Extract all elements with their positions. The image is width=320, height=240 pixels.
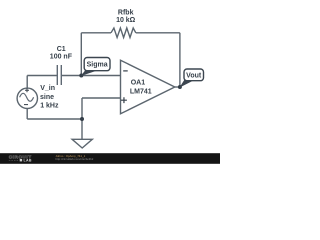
wire feedback riser right: [179, 33, 181, 87]
junction dot at output node: [178, 85, 182, 89]
svg-text:1 kHz: 1 kHz: [40, 103, 59, 110]
plus mark in source: [25, 88, 29, 92]
watermark bar: [0, 153, 220, 164]
minus mark in source: [24, 104, 28, 106]
junction dot at ground node: [80, 117, 84, 121]
wire source bottom column: [26, 108, 28, 119]
op-amp plus symbol: [121, 97, 127, 103]
svg-text:10 kΩ: 10 kΩ: [116, 17, 136, 24]
voltage source V_in circle: [17, 88, 37, 108]
wire source top column: [26, 76, 28, 89]
watermark logo square: [20, 159, 22, 161]
wire ground stub: [81, 119, 83, 139]
wire feedback top row left of Rfbk: [81, 32, 111, 34]
svg-text:100 nF: 100 nF: [50, 54, 73, 61]
wire top-left row from source to C1: [27, 75, 57, 77]
svg-text:http://circuitlab.com/c/ac3e3b: http://circuitlab.com/c/ac3e3b2: [56, 157, 94, 161]
node flag Sigma: [84, 58, 110, 71]
wire bottom row to ground node: [27, 118, 82, 120]
svg-text:V_in: V_in: [40, 85, 55, 92]
wire op-amp output: [175, 86, 180, 88]
svg-text:LM741: LM741: [130, 88, 152, 95]
wire feedback top row right of Rfbk: [136, 32, 180, 34]
svg-text:Sigma: Sigma: [87, 62, 108, 69]
node flag Vout pointer: [179, 79, 193, 87]
watermark logo dashes: [9, 159, 19, 161]
svg-text:LAB: LAB: [24, 158, 32, 162]
sine wave inside source: [20, 93, 34, 101]
wire C1 to minus input: [61, 75, 120, 77]
capacitor C1: [56, 65, 58, 85]
op-amp minus symbol: [123, 70, 128, 72]
svg-text:C1: C1: [57, 46, 66, 53]
node flag Sigma pointer: [81, 69, 97, 76]
wire feedback riser left: [80, 33, 82, 76]
svg-text:sine: sine: [40, 94, 54, 101]
ground: [72, 139, 92, 148]
svg-text:OA1: OA1: [131, 79, 146, 86]
node flag Vout: [184, 69, 204, 81]
op-amp OA1 triangle: [121, 60, 175, 114]
svg-text:Rfbk: Rfbk: [118, 10, 134, 17]
junction dot at Sigma node: [79, 74, 83, 78]
svg-text:Vout: Vout: [186, 73, 202, 80]
wire plus-input row: [82, 97, 121, 99]
resistor Rfbk: [111, 28, 136, 38]
wire plus-input riser: [81, 98, 83, 119]
